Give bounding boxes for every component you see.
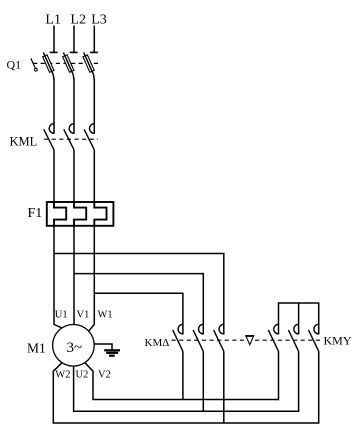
overload relay F1 box [47,202,114,226]
Q1 mechanical linkage (dashed) [33,62,101,64]
wire star bridge to KM-Y pole 2 [298,303,300,334]
svg-text:L1: L1 [45,13,61,28]
wire branch phase 2 to KM-delta pole 2 [74,274,203,335]
delta (nabla) symbol on linkage [245,336,254,345]
contactor KM-Y main contact pole 2 [288,324,298,351]
contactor KML main contact pole 3 [84,124,94,150]
contactor KML main contact pole 1 [44,124,54,150]
star point bridge bar [279,303,319,334]
svg-text:KMY: KMY [324,334,352,348]
motor M1 circle [53,325,95,367]
svg-text:KMΔ: KMΔ [145,337,170,349]
contactor KM-Y main contact pole 1 [268,324,278,351]
svg-text:V2: V2 [98,370,111,381]
wire phase 2 F1 to motor terminal V1 [73,226,75,325]
wire L2 supply stub [73,26,75,53]
switch-fuse Q1 pole 2 [63,52,78,80]
svg-text:L2: L2 [70,13,86,28]
wire branch phase 3 to KM-delta pole 1 [94,293,183,334]
wire motor U2 to bottom bus 2 [74,351,299,411]
wire L3 supply stub [93,26,95,53]
svg-text:Q1: Q1 [7,58,22,72]
svg-text:U1: U1 [55,310,68,321]
wire KML to F1 pole 2 [73,150,75,202]
wire KML to F1 pole 3 [93,150,95,202]
wire motor V2 to bottom bus 1 [85,351,279,399]
Q1 manual operator handle [31,58,37,71]
svg-text:W1: W1 [98,310,113,321]
KML mechanical linkage (dashed) [44,138,98,140]
svg-text:W2: W2 [55,370,70,381]
KM-Y mechanical linkage (dashed) [255,339,322,341]
wire phase 1 F1 to motor terminal U1 [54,226,62,328]
wire KM-delta pole 1 to bus 1 [182,351,184,399]
contactor KM-Y main contact pole 3 [309,324,319,351]
switch-fuse Q1 pole 3 [83,52,98,80]
overload relay F1 heater element pole 1 [54,202,66,226]
svg-text:M1: M1 [27,340,46,355]
wire KM-delta pole 2 to bus 2 [202,351,204,411]
earth ground symbol [94,344,120,356]
svg-text:KML: KML [10,135,38,149]
wire Q1 to KML pole 3 [93,80,95,134]
overload relay F1 heater element pole 2 [74,202,86,226]
KM-delta mechanical linkage (dashed) [172,339,246,341]
wire KM-delta pole 3 to bus 3 [223,351,225,423]
wire motor W2 to bottom bus 3 [53,351,318,423]
overload relay F1 heater element pole 3 [94,202,106,226]
contactor KM-delta main contact pole 2 [193,324,203,351]
contactor KML main contact pole 2 [64,124,74,150]
svg-text:L3: L3 [91,13,107,28]
wire Q1 to KML pole 1 [53,80,55,134]
wire KML to F1 pole 1 [53,150,55,202]
contactor KM-delta main contact pole 3 [214,324,224,351]
svg-text:3~: 3~ [67,340,83,356]
svg-text:F1: F1 [28,206,43,221]
wire L1 supply stub [53,26,55,53]
wire Q1 to KML pole 2 [73,80,75,134]
switch-fuse Q1 pole 1 [43,52,58,80]
svg-text:V1: V1 [77,310,90,321]
contactor KM-delta main contact pole 1 [173,324,183,351]
wire branch phase 1 to KM-delta pole 3 [54,254,224,335]
wire phase 3 F1 to motor terminal W1 [89,226,95,331]
svg-text:U2: U2 [76,370,89,381]
